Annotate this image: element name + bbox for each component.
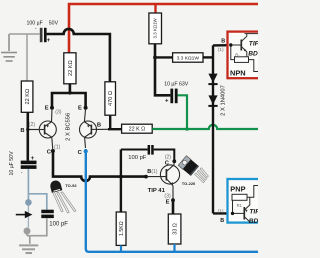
resistor R8 33 [168, 214, 181, 244]
module PNP driver box [228, 179, 264, 225]
svg-text:BDV: BDV [249, 218, 258, 225]
label (2) C TIP41 [165, 154, 172, 166]
label C (1) Q1 [47, 144, 61, 155]
svg-text:(1): (1) [218, 208, 224, 214]
wire C of Q1 down to TIP41 base, hop over blue [53, 151, 146, 181]
leads TO-92 [53, 192, 76, 213]
wire to PNP base [213, 212, 233, 214]
svg-text:10 µF 50V: 10 µF 50V [9, 151, 15, 176]
svg-text:(2): (2) [29, 122, 36, 128]
svg-text:R1: R1 [237, 203, 243, 208]
capacitor C2 10uF 50V [9, 151, 37, 176]
diode D1 1N4007 [208, 74, 217, 86]
svg-text:22 K Ω: 22 K Ω [129, 127, 146, 133]
svg-text:B: B [20, 128, 24, 134]
transistor inside PNP box [233, 197, 250, 222]
wire E TIP41 to R8 [172, 200, 175, 214]
svg-text:E: E [166, 200, 170, 206]
resistor R6 3.3K 1W (horizontal) [173, 53, 203, 62]
capacitor C1 100uF 50V [27, 20, 59, 44]
node input ground terminal [24, 228, 31, 235]
svg-text:+: + [31, 156, 35, 162]
svg-text:BDV: BDV [248, 50, 258, 57]
input arrow [16, 211, 33, 218]
wire to NPN base [213, 44, 231, 47]
wire Q2 base junction [97, 128, 109, 130]
wire terminal link [27, 206, 29, 228]
svg-text:+: + [165, 98, 169, 104]
wire R7 to bus [120, 245, 122, 251]
wire C1 to node, hop over red [47, 29, 110, 82]
svg-text:470 Ω: 470 Ω [108, 91, 114, 106]
resistor R1 inside PNP box [232, 186, 258, 214]
transistor Q3 TIP41 [148, 161, 180, 200]
svg-text:(1): (1) [218, 47, 224, 53]
node PNP base [231, 212, 234, 215]
leads TO-220 [195, 168, 209, 183]
svg-text:2 X BC556: 2 X BC556 [66, 113, 72, 141]
wire V+ red bus [69, 4, 258, 53]
resistor R7 1.5K [116, 212, 126, 245]
label B (2) Q1 [20, 122, 35, 134]
node R5/R6 [153, 56, 157, 60]
svg-text:B: B [220, 218, 224, 224]
wire C3 to ground [27, 218, 47, 236]
node C Q1 [51, 149, 55, 153]
node E Q2 [84, 106, 88, 110]
svg-text:33 Ω: 33 Ω [172, 223, 178, 235]
node input hot terminal [25, 199, 32, 206]
node C TIP41 [172, 159, 176, 163]
svg-text:1.5KΩ: 1.5KΩ [119, 221, 125, 236]
svg-text:10 µF 63V: 10 µF 63V [164, 82, 189, 88]
svg-text:3.3 KΩ1W: 3.3 KΩ1W [153, 17, 158, 38]
wire R6 to diode chain [203, 56, 213, 58]
module NPN driver box [228, 32, 263, 79]
wire blue ground bus [86, 149, 258, 252]
package TO-92 [49, 179, 62, 193]
diode D2 1N4007 [208, 95, 217, 107]
node C Q2 [84, 149, 88, 153]
label (3) E TIP41 [164, 193, 171, 205]
svg-text:22 KΩ: 22 KΩ [25, 89, 31, 105]
resistor R4 22K (horizontal) [122, 124, 153, 133]
label E (3) Q1 [45, 105, 62, 115]
wire R2 to base Q1 to C2 [26, 112, 29, 160]
svg-text:E: E [78, 105, 82, 111]
svg-text:3.3 KΩ1W: 3.3 KΩ1W [177, 56, 200, 62]
svg-text:TO-220: TO-220 [182, 181, 196, 186]
ground (top-left chassis) [1, 34, 17, 61]
transistor Q2 BC556 [80, 109, 97, 149]
svg-text:TIP: TIP [249, 209, 258, 216]
label (1) B at PNP [218, 208, 225, 223]
svg-text:100 pF: 100 pF [128, 155, 147, 161]
node B Q1 junction [26, 128, 29, 131]
node R1/E-bus junction [68, 91, 72, 95]
wire R5 down to C4 [155, 44, 170, 96]
capacitor C3 100pF [41, 210, 68, 228]
transistor Q1 BC556 [39, 109, 56, 150]
wire green from C4 [178, 95, 187, 129]
wire C2 to input terminal [27, 169, 29, 200]
svg-text:B: B [221, 38, 225, 44]
svg-text:B: B [97, 122, 101, 128]
capacitor C5 100pF [128, 145, 153, 161]
svg-text:NPN: NPN [230, 69, 246, 78]
capacitor C4 10uF 63V [164, 82, 189, 105]
node E Q1 [50, 106, 54, 110]
wire C5 horizontal [121, 150, 174, 162]
resistor R3 470 [105, 82, 116, 115]
svg-text:TIP: TIP [249, 40, 258, 47]
node green junction [185, 127, 189, 131]
svg-text:TO-92: TO-92 [65, 183, 77, 188]
node junction R7/C5 [119, 175, 123, 179]
resistor R1 inside NPN box [231, 45, 258, 72]
wire gray to R2 [26, 34, 28, 82]
wire green output [152, 125, 258, 129]
wire R8 to bus [173, 244, 175, 252]
wire terminal to ground [27, 234, 30, 244]
svg-text:(3): (3) [55, 110, 62, 116]
resistor R2 22K (to base Q1) [21, 81, 33, 112]
wire diode chain vertical [212, 45, 214, 213]
ground (input) [19, 245, 38, 253]
svg-text:100 µF: 100 µF [27, 21, 43, 27]
resistor R5 3.3K 1W (vertical) [149, 13, 162, 44]
svg-text:PNP: PNP [230, 184, 245, 193]
svg-text:(1): (1) [54, 144, 61, 150]
svg-text:+: + [47, 37, 51, 44]
svg-text:2 X 1N4007: 2 X 1N4007 [220, 85, 226, 116]
resistor R1 22K (from V+) [64, 53, 76, 84]
svg-text:B(1): B(1) [147, 169, 157, 175]
transistor inside NPN box [231, 34, 258, 60]
wire input gray [9, 33, 40, 35]
node base TIP41 [144, 175, 148, 179]
node NPN base [229, 43, 232, 46]
svg-text:(3): (3) [164, 193, 171, 199]
node E TIP41 [171, 198, 175, 202]
svg-text:50V: 50V [49, 20, 59, 26]
package TO-220 [178, 156, 199, 176]
svg-text:E: E [45, 105, 49, 111]
label B (1) at NPN [218, 38, 226, 53]
wire emitter bus [52, 84, 86, 107]
svg-text:100 pF: 100 pF [49, 222, 68, 228]
wire to R6 [155, 56, 173, 58]
svg-text:22 KΩ: 22 KΩ [68, 60, 74, 76]
svg-text:TIP 41: TIP 41 [148, 188, 166, 194]
svg-text:(2): (2) [165, 154, 172, 160]
svg-text:R₁: R₁ [235, 52, 240, 57]
wire input branch to C3 [28, 194, 46, 210]
wire C5 branch vertical [120, 150, 122, 213]
